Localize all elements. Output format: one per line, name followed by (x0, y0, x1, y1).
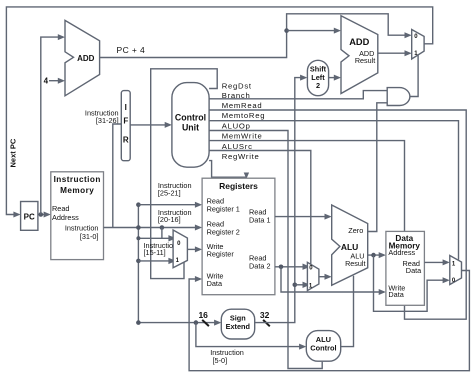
wire constant 4 input (44, 77, 65, 86)
node junction on PC+4 vertical (284, 28, 289, 33)
mux RegDst (write register) (173, 230, 187, 268)
svg-text:2: 2 (316, 81, 320, 90)
svg-text:R: R (123, 136, 129, 145)
svg-text:ALU: ALU (341, 242, 358, 252)
op-amp ALU (332, 205, 368, 285)
svg-text:RegWrite: RegWrite (222, 152, 260, 161)
adder ADD (branch target) (341, 16, 378, 94)
wire Next PC loop (mux output to PC input) (6, 7, 432, 218)
register PC (21, 202, 38, 231)
wire Instruction[15-0] to sign extend (138, 320, 221, 326)
svg-text:Result: Result (355, 56, 375, 65)
svg-text:Data: Data (207, 279, 223, 288)
svg-text:Read: Read (52, 204, 69, 213)
wire Instruction[25-21] to read register 1 (138, 202, 202, 208)
wire data memory read data to mux4 input1 (424, 259, 449, 265)
wire ALUSrc control to mux3 select (209, 151, 311, 265)
svg-text:Zero: Zero (348, 226, 363, 235)
mux MemtoReg (450, 256, 462, 285)
node junction spine / mux0 feed (136, 236, 140, 240)
wire write back loop to registers write data (189, 271, 469, 371)
node Instruction[15-11] label (144, 241, 178, 257)
svg-text:[5-0]: [5-0] (213, 356, 228, 365)
node junction 15-11 branch (136, 259, 141, 264)
svg-text:Register: Register (207, 250, 235, 259)
svg-text:[15-11]: [15-11] (144, 248, 166, 257)
wire MemRead control to data memory (209, 110, 466, 319)
svg-text:32: 32 (260, 310, 270, 320)
wire ALU result to data memory address (368, 252, 386, 258)
wire ADD result to mux1 input1 (378, 50, 412, 56)
svg-text:Memory: Memory (60, 186, 94, 195)
node junction spine/bus (136, 225, 141, 230)
wire instruction bus to registers (Instruction[20-16]) (104, 225, 203, 231)
svg-text:[31-0]: [31-0] (80, 232, 99, 241)
svg-text:Data 1: Data 1 (249, 215, 271, 224)
wire PC+4 into branch adder top (287, 28, 341, 34)
wire instruction field spine vertical (137, 205, 139, 323)
svg-text:MemWrite: MemWrite (222, 132, 263, 141)
svg-text:Register 2: Register 2 (207, 227, 240, 236)
node junction read data 2 (279, 265, 284, 270)
oval Shift Left 2 (307, 60, 328, 95)
node junction instr 5-0 branch (194, 320, 199, 325)
svg-text:Data 2: Data 2 (249, 261, 271, 270)
svg-text:RegDst: RegDst (222, 82, 252, 91)
wire mux2 out to write register (187, 246, 202, 252)
wire sign extend branch into mux3 input1 (295, 282, 310, 288)
svg-text:Extend: Extend (226, 322, 250, 331)
svg-text:[20-16]: [20-16] (158, 215, 181, 224)
oval Sign Extend (221, 309, 254, 339)
wire ALU result bypass to mux4 input0 (374, 255, 450, 311)
svg-text:ALUOp: ALUOp (222, 121, 251, 130)
svg-text:PC + 4: PC + 4 (117, 45, 146, 55)
svg-text:4: 4 (44, 77, 49, 86)
register IFR (121, 91, 130, 161)
wire RegDst control to write-register mux select (151, 69, 218, 279)
svg-text:Sign: Sign (230, 313, 246, 322)
node Instruction[20-16] label (158, 208, 192, 224)
oval ALU Control (306, 331, 340, 362)
wire Instruction[15-11] to mux2 input1 (138, 258, 176, 264)
svg-text:Unit: Unit (182, 123, 199, 133)
wire mux2 input0 feed from spine (138, 235, 176, 241)
node Instruction[25-21] label (158, 181, 192, 197)
node Instruction [31-26] label (85, 109, 119, 126)
svg-text:F: F (123, 117, 128, 126)
wire ALU control out to ALU select (341, 276, 354, 347)
svg-text:I: I (125, 103, 127, 112)
node junction spine top (136, 202, 141, 207)
memory Data Memory (386, 231, 425, 305)
svg-text:ALU: ALU (316, 335, 331, 344)
mux PCSrc (top right) (412, 30, 424, 60)
gate AND (branch) (387, 88, 410, 106)
wire shift left 2 out to branch adder (329, 75, 341, 81)
wire MemtoReg control to mux4 select (209, 121, 458, 260)
adder ADD (PC+4) (65, 20, 100, 95)
svg-text:Data: Data (388, 290, 404, 299)
wire MemWrite control to data memory top (209, 141, 404, 232)
wire Branch control to AND gate (209, 91, 387, 99)
svg-text:16: 16 (198, 310, 208, 320)
node 32 bit width marker (260, 310, 270, 326)
wire Instruction[5-0] to ALU control (196, 323, 306, 350)
wire Read Data 1 to ALU (275, 214, 332, 220)
wire RegWrite control to registers (209, 161, 249, 179)
svg-text:ALUSrc: ALUSrc (222, 142, 253, 151)
node 16 bit width marker (198, 310, 208, 326)
wire Read Data 2 to mux3 input0 (275, 264, 310, 270)
svg-text:Result: Result (345, 259, 365, 268)
svg-text:Data: Data (406, 266, 422, 275)
svg-text:Next PC: Next PC (8, 138, 17, 167)
svg-text:Registers: Registers (219, 181, 258, 191)
mux ALUSrc (307, 262, 319, 290)
svg-text:Address: Address (388, 248, 415, 257)
op-amp Control Unit (172, 83, 209, 168)
svg-text:Control: Control (175, 112, 206, 122)
wire IFR to control unit (130, 122, 172, 128)
node junction on PC output (39, 212, 44, 217)
node junction 20-16 branch (160, 225, 165, 230)
wire PC branch up to PC+4 adder (41, 34, 65, 214)
svg-text:MemRead: MemRead (222, 101, 263, 110)
svg-text:Address: Address (52, 213, 79, 222)
node junction ALU result (371, 253, 376, 258)
wire PC+4 to branch adder and mux0 (100, 14, 412, 58)
svg-text:Instruction: Instruction (54, 175, 101, 184)
svg-text:Branch: Branch (222, 91, 251, 100)
svg-text:PC: PC (24, 213, 35, 222)
wire sign extend out to mux3 input1 and shift left 2 (255, 75, 308, 323)
svg-text:Instruction: Instruction (65, 223, 99, 232)
svg-text:Register 1: Register 1 (207, 204, 240, 213)
wire PC to instruction memory (38, 212, 51, 218)
node junction spine bottom corner (136, 320, 141, 325)
svg-text:[25-21]: [25-21] (158, 189, 181, 198)
svg-text:MemtoReg: MemtoReg (222, 111, 266, 120)
svg-text:ADD: ADD (349, 37, 369, 47)
memory Instruction Memory (51, 172, 104, 260)
register file Registers (202, 178, 275, 295)
wire instruction bus up into IFR (113, 124, 122, 228)
node Instruction[5-0] label (210, 348, 244, 365)
wire AND output to mux1 select (410, 55, 418, 96)
wire mux3 out to ALU (319, 274, 332, 280)
svg-text:Control: Control (310, 344, 336, 353)
wire ALUOp control to ALU control (209, 131, 322, 369)
node junction sign extend to mux3 (293, 283, 298, 288)
svg-text:ADD: ADD (77, 54, 95, 63)
wire Instruction[20-16] drop to mux0 feed (161, 228, 163, 239)
wire Zero to AND gate (368, 103, 388, 232)
wire Read Data 2 branch to data memory write data (281, 267, 386, 295)
